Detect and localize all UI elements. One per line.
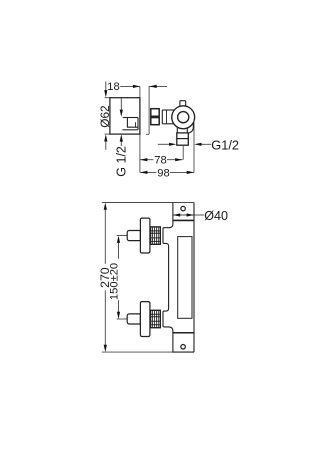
dimension 98 label [156, 168, 170, 178]
svg-text:78: 78 [154, 155, 166, 167]
svg-text:98: 98 [157, 167, 169, 179]
bottom extension line 270 [102, 351, 173, 353]
mixer column right edge [193, 203, 195, 353]
bottom tab screw hole [181, 345, 186, 350]
upper knob flange ribs [153, 227, 159, 244]
dimension 78 label [153, 155, 167, 165]
wall union nut top line [123, 117, 138, 119]
G 1/2 leader lower arrow [120, 141, 122, 146]
dimension 150 upper segment and arrow [118, 242, 120, 259]
outlet nut mid line [177, 138, 189, 140]
valve neck joint line [166, 110, 168, 124]
svg-text:18: 18 [107, 81, 119, 93]
dimension 78 line [140, 159, 182, 161]
fitting face extension line [148, 86, 150, 134]
valve body inner circle [178, 112, 189, 123]
wall union nut flange line [122, 129, 138, 131]
svg-text:Ø40: Ø40 [204, 209, 228, 223]
wall bracket top tab left edge [172, 203, 174, 225]
outlet nut [177, 133, 189, 145]
wall union nut body [127, 118, 138, 128]
G1/2 right leader left arrow [158, 143, 171, 145]
upper knob flange grooves [151, 231, 161, 242]
escutcheon plate (side view) [110, 98, 140, 134]
wall union nut inner edge [135, 122, 137, 127]
dimension 18 left arrow [133, 85, 140, 88]
dimension 270 upper segment and arrow [104, 209, 106, 263]
svg-text:G1/2: G1/2 [211, 138, 239, 153]
dimension 270 lower segment and arrow [104, 290, 106, 345]
wall extension line [139, 86, 141, 172]
diameter 40 double arrow [173, 214, 193, 216]
valve neck bottom edge [162, 123, 174, 125]
body to outlet fillet [189, 123, 193, 133]
dimension 18 right arrow [149, 85, 156, 88]
diameter 62 dimension lower arrow [105, 141, 107, 150]
body right extension line [193, 119, 195, 173]
lower knob ribbed flange [151, 310, 161, 327]
mixer column left profile with valve bosses [163, 224, 173, 333]
valve neck left edge [161, 110, 163, 124]
ribbed connector groove lines [151, 116, 159, 119]
top tab screw hole [181, 206, 186, 211]
wall bracket top tab bottom line [173, 219, 194, 221]
lower knob extension line [117, 318, 128, 320]
dimension 18 line left segment [120, 85, 140, 87]
lower knob flange ribs [153, 310, 159, 327]
lower knob stub [127, 314, 140, 324]
plate top extension stub [105, 97, 110, 99]
dimension 18 right tail [149, 85, 167, 87]
upper knob ribbed flange [151, 227, 161, 244]
top extension line 270 and tab top edge [102, 202, 194, 204]
wall bracket bottom tab [173, 332, 194, 352]
outlet centerline extension [182, 145, 184, 160]
valve body outer circle [172, 106, 195, 129]
svg-text:G 1/2: G 1/2 [114, 146, 128, 177]
valve neck top edge [162, 109, 174, 111]
upper knob extension line [117, 235, 128, 237]
lower knob disc [140, 302, 150, 337]
lower knob flange grooves [151, 314, 161, 325]
cartridge cap [180, 101, 186, 106]
bottom tab top line [173, 332, 194, 334]
diameter 40 leader [194, 214, 204, 216]
dimension 98 line [140, 171, 194, 173]
ribbed connector block [151, 109, 159, 125]
recessed inner panel [178, 237, 192, 319]
outlet stem left edge [176, 127, 178, 133]
extension line foot [146, 133, 149, 135]
diameter 62 dimension upper arrow [105, 81, 107, 91]
G 1/2 leader upper arrow [120, 98, 122, 111]
wall union nut right edge [137, 118, 139, 130]
dimension 150 lower segment and arrow [118, 300, 120, 312]
upper knob stub [127, 231, 140, 241]
outlet stem right edge [186, 128, 188, 133]
plate bottom extension stub [105, 133, 110, 135]
G1/2 right leader right arrow [200, 143, 211, 145]
svg-text:150±20: 150±20 [109, 263, 121, 300]
upper knob disc [140, 218, 150, 253]
